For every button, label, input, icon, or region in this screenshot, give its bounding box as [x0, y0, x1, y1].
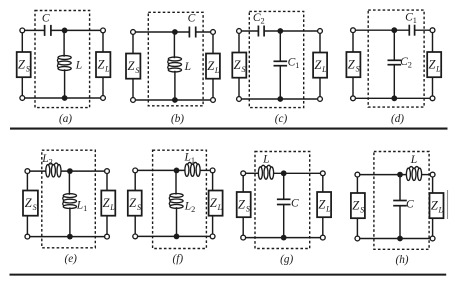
svg-text:(e): (e) — [64, 253, 77, 265]
svg-text:S: S — [246, 205, 250, 214]
svg-text:(h): (h) — [395, 254, 408, 266]
svg-text:L: L — [321, 65, 327, 74]
svg-text:Z: Z — [234, 58, 242, 72]
svg-text:S: S — [360, 206, 364, 215]
svg-text:S: S — [356, 65, 360, 74]
svg-text:C: C — [188, 13, 196, 25]
svg-text:Z: Z — [238, 198, 246, 212]
svg-text:C: C — [42, 13, 50, 25]
svg-text:S: S — [137, 203, 141, 212]
svg-text:L: L — [217, 203, 223, 212]
svg-text:L: L — [435, 65, 441, 74]
svg-text:S: S — [26, 65, 30, 74]
svg-text:(a): (a) — [59, 113, 72, 125]
svg-text:L: L — [109, 203, 115, 212]
svg-text:L: L — [184, 61, 191, 73]
svg-text:L: L — [325, 205, 331, 214]
svg-text:(f): (f) — [173, 253, 184, 265]
svg-text:Z: Z — [348, 58, 356, 72]
svg-text:(b): (b) — [171, 113, 184, 125]
svg-text:L: L — [214, 66, 220, 75]
svg-text:Z: Z — [352, 199, 360, 213]
svg-text:Z: Z — [25, 196, 33, 210]
svg-text:(c): (c) — [275, 113, 288, 125]
svg-text:S: S — [242, 65, 246, 74]
svg-text:(g): (g) — [280, 253, 293, 265]
svg-text:Z: Z — [129, 196, 137, 210]
svg-text:Z: Z — [18, 58, 26, 72]
svg-text:Z: Z — [128, 59, 136, 73]
svg-text:L: L — [75, 60, 82, 72]
svg-text:S: S — [33, 203, 37, 212]
svg-text:L: L — [262, 154, 269, 166]
svg-text:C: C — [291, 197, 299, 209]
svg-text:C: C — [406, 199, 414, 211]
svg-text:L: L — [437, 206, 443, 215]
svg-text:L: L — [410, 154, 417, 166]
svg-text:(d): (d) — [391, 113, 404, 125]
svg-text:L: L — [104, 65, 110, 74]
svg-text:S: S — [135, 66, 139, 75]
